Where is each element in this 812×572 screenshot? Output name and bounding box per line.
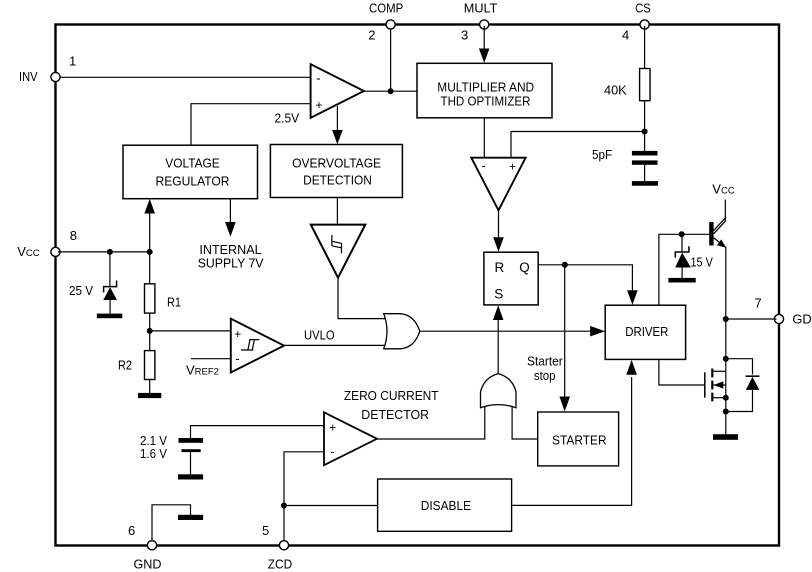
block STARTER <box>538 412 619 466</box>
wire GND pin to signal ground plate <box>152 505 191 540</box>
block OVERVOLTAGE DETECTION <box>270 145 402 198</box>
wire divider tap to UVLO comparator plus input <box>150 330 231 332</box>
svg-text:40K: 40K <box>604 82 627 97</box>
node R1/R2 divider tap <box>147 328 153 334</box>
resistor R1 <box>145 284 182 313</box>
svg-text:UVLO: UVLO <box>304 328 335 343</box>
wire COMP pin drop <box>390 26 392 91</box>
transistor Q1 emitter follower <box>709 217 726 248</box>
wire VCC junction to R1 <box>149 252 151 284</box>
wire PWM comparator output to R input (arrow) <box>493 210 504 252</box>
pin 4 CS <box>622 1 651 43</box>
wire ZCD comparator output to OR gate left input <box>377 406 485 439</box>
comparator OVD hysteresis buffer (points down) <box>311 225 366 278</box>
svg-text:+: + <box>234 327 241 341</box>
svg-text:stop: stop <box>534 368 556 383</box>
op-amp E/A error amplifier <box>311 64 364 118</box>
svg-text:-: - <box>316 70 320 85</box>
svg-text:MULT: MULT <box>464 1 498 16</box>
diode zener 25V <box>69 252 117 314</box>
wire R2 to ground <box>149 380 151 394</box>
svg-text:6: 6 <box>128 523 135 538</box>
svg-text:ZCD: ZCD <box>268 557 292 572</box>
comparator UVLO with hysteresis <box>231 319 284 373</box>
op-amp PWM comparator (points down) <box>471 158 525 211</box>
svg-text:COMP: COMP <box>369 1 403 16</box>
wire OR gate output to driver (arrow) <box>420 326 605 337</box>
svg-text:GD: GD <box>792 312 811 327</box>
wire 2.5V reference to error amp non-inverting input <box>191 104 311 146</box>
svg-text:8: 8 <box>70 228 77 243</box>
diode body (bootstrap diode) <box>726 359 760 412</box>
svg-text:SUPPLY 7V: SUPPLY 7V <box>198 256 264 271</box>
svg-text:INV: INV <box>19 69 38 84</box>
svg-text:MULTIPLIER AND: MULTIPLIER AND <box>437 79 534 94</box>
transistor M1 output MOSFET <box>705 369 726 402</box>
node BJT base / zener junction <box>679 231 685 237</box>
wire driver to MOSFET gate <box>659 359 704 385</box>
block MULTIPLIER AND THD OPTIMIZER <box>417 63 552 118</box>
wire VCC pin rail <box>58 251 150 253</box>
wire error amp to overvoltage detection (arrow) <box>332 106 343 144</box>
pin 3 MULT <box>461 1 497 43</box>
node CS junction <box>642 129 648 135</box>
signal ground plate near pin 6 <box>178 515 203 520</box>
svg-text:-: - <box>330 444 334 459</box>
svg-text:DISABLE: DISABLE <box>421 498 472 513</box>
node GD junction <box>723 316 729 322</box>
svg-text:7: 7 <box>755 296 762 311</box>
wire DISABLE output to driver bottom (arrow) <box>512 360 637 506</box>
wire multiplier output to PWM comparator minus input <box>483 118 485 158</box>
wire emitter down to GD node <box>725 247 727 320</box>
svg-text:5: 5 <box>262 523 269 538</box>
svg-text:CS: CS <box>635 1 651 16</box>
wire UVLO output to OR gate bottom input <box>284 344 389 346</box>
svg-text:ZERO CURRENT: ZERO CURRENT <box>344 388 439 403</box>
node MOSFET source junction <box>723 395 729 401</box>
wire VCC to BJT collector <box>724 200 726 221</box>
svg-text:R: R <box>495 260 505 275</box>
resistor R2 <box>118 351 155 380</box>
diode zener 15V <box>675 234 713 278</box>
wire CS pin to 40K resistor <box>644 26 646 69</box>
svg-text:Starter: Starter <box>527 353 563 368</box>
ground under MOSFET <box>713 434 738 440</box>
block VOLTAGE REGULATOR <box>123 145 258 199</box>
label ZERO CURRENT DETECTOR <box>344 388 439 422</box>
capacitor 5pF <box>592 147 658 181</box>
resistor 40K <box>604 69 650 101</box>
svg-text:OVERVOLTAGE: OVERVOLTAGE <box>292 155 381 170</box>
ground under 15V zener <box>668 278 695 283</box>
node Q output junction <box>562 262 568 268</box>
node COMP/error-amp output junction <box>388 88 394 94</box>
svg-text:5pF: 5pF <box>592 147 612 162</box>
svg-text:+: + <box>316 98 323 112</box>
block DRIVER <box>605 305 685 359</box>
wire Q output to driver top (arrow) <box>538 265 638 305</box>
gate OR (ZCD / starter, points up) <box>481 374 517 408</box>
svg-text:-: - <box>482 158 486 173</box>
svg-text:2: 2 <box>368 27 375 42</box>
wire R1 to R2 <box>149 313 151 351</box>
comparator ZERO CURRENT DETECTOR <box>324 412 377 465</box>
svg-text:1.6 V: 1.6 V <box>140 446 167 461</box>
wire junction to PWM comparator plus input <box>511 132 645 159</box>
svg-text:STARTER: STARTER <box>552 433 607 448</box>
wire ZCD pin to minus input and disable <box>284 452 324 540</box>
wire MOSFET source to ground <box>725 371 727 434</box>
svg-text:VOLTAGE: VOLTAGE <box>165 155 220 170</box>
svg-text:15 V: 15 V <box>691 255 714 270</box>
svg-text:R2: R2 <box>118 358 132 373</box>
svg-text:1: 1 <box>69 53 76 68</box>
svg-text:4: 4 <box>622 27 629 42</box>
label Starter stop <box>527 353 563 382</box>
pin 5 ZCD <box>262 523 292 571</box>
svg-text:2.5V: 2.5V <box>275 110 300 125</box>
label INTERNAL SUPPLY 7V <box>198 242 264 271</box>
pin 6 GND <box>128 523 162 571</box>
wire MULT pin into multiplier (arrow) <box>479 26 490 63</box>
svg-text:25 V: 25 V <box>69 283 93 298</box>
wire INV pin to error amp inverting input <box>58 76 311 78</box>
wire STARTER output to OR gate right input <box>512 406 538 439</box>
wire GD node down to output stage <box>725 319 727 371</box>
wire VCC rail up into voltage regulator (arrow) <box>144 199 155 252</box>
wire junction to DISABLE block <box>284 505 378 507</box>
svg-text:R1: R1 <box>167 294 181 309</box>
ground under R2 <box>138 393 161 398</box>
svg-text:REGULATOR: REGULATOR <box>156 173 230 188</box>
ground under 5pF <box>632 181 658 186</box>
node diode top junction <box>723 356 729 362</box>
svg-text:DETECTION: DETECTION <box>303 172 372 187</box>
node ZCD/disable junction <box>281 503 287 509</box>
svg-text:THD OPTIMIZER: THD OPTIMIZER <box>441 93 531 108</box>
block DISABLE <box>378 479 512 531</box>
svg-text:GND: GND <box>134 557 162 572</box>
wire overvoltage detection to hysteresis buffer <box>336 198 338 225</box>
pin 7 GD <box>755 296 812 327</box>
wire GD node to pin 7 <box>726 318 777 320</box>
svg-text:S: S <box>494 287 503 302</box>
wire hysteresis buffer output to OR gate top input <box>338 278 389 319</box>
wire voltage regulator to internal supply (arrow) <box>225 199 236 237</box>
pin 8 VCC <box>17 228 77 259</box>
pin 2 COMP <box>368 1 403 43</box>
svg-text:DETECTOR: DETECTOR <box>361 407 429 422</box>
wire VREF2 stub to UVLO minus input <box>191 358 231 360</box>
wire 40K to junction <box>644 101 646 152</box>
wire OR gate output to S input (arrow) <box>493 305 504 373</box>
gate OR (UVLO / OVD) <box>384 314 420 349</box>
svg-text:Q: Q <box>519 260 530 275</box>
node diode bottom junction <box>723 409 729 415</box>
svg-text:+: + <box>509 159 516 173</box>
svg-text:3: 3 <box>461 27 468 42</box>
pin 1 INV <box>19 53 76 84</box>
node VCC zener junction <box>107 249 113 255</box>
svg-text:+: + <box>329 421 336 435</box>
flip-flop R/S latch U-RS <box>484 252 538 305</box>
svg-text:DRIVER: DRIVER <box>625 324 668 339</box>
wire Q junction down to starter (arrow), starter stop <box>559 265 570 412</box>
wire error amp output to COMP node and multiplier <box>364 90 417 92</box>
threshold reference 2.1V / 1.6V <box>140 426 324 480</box>
svg-text:-: - <box>235 351 239 366</box>
node VCC divider junction <box>147 249 153 255</box>
ground under 25V zener <box>97 314 123 319</box>
wire driver top to BJT base <box>659 234 709 305</box>
